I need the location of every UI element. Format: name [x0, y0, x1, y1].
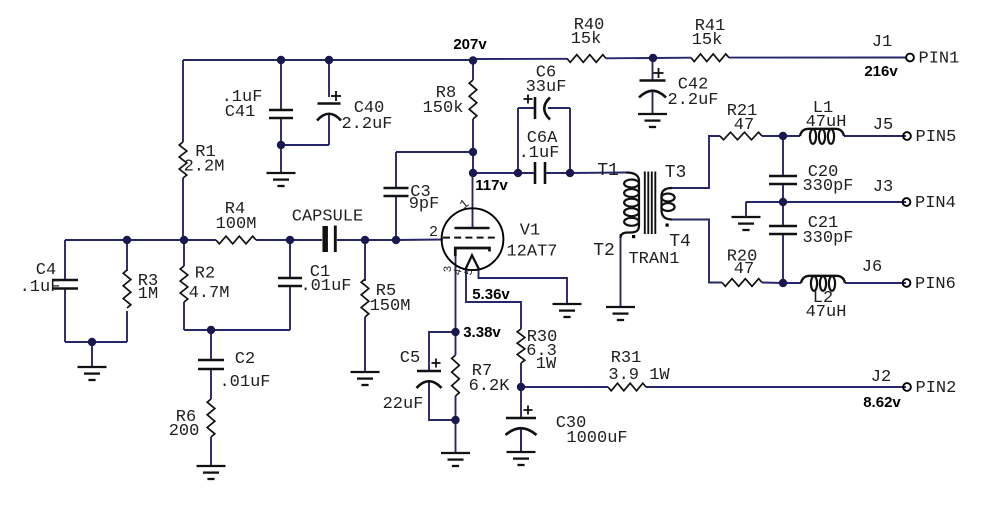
wire T2 lead — [620, 234, 622, 306]
ground under C4 loop — [78, 342, 107, 380]
capacitor C21 — [769, 214, 854, 248]
tube V1 pin 3 label — [443, 266, 455, 273]
label 12AT7 — [506, 243, 557, 262]
wire C2 branch — [210, 330, 212, 399]
wire R41 leads — [653, 57, 906, 60]
connector J3 PIN4 — [873, 178, 956, 213]
svg-text:J2: J2 — [871, 368, 891, 387]
tube V1 cathode — [455, 248, 489, 256]
transformer TRAN1 phase dot secondary — [666, 224, 669, 227]
resistor R30 — [517, 328, 557, 374]
wire L1 leads — [783, 135, 906, 137]
node 3.38v — [463, 324, 501, 341]
wire C40 top stub — [328, 60, 330, 97]
resistor R5 — [361, 279, 410, 317]
ground under R6 — [197, 437, 226, 479]
svg-text:1W: 1W — [536, 355, 557, 374]
capacitor C6A — [519, 129, 560, 184]
resistor R2 — [180, 265, 229, 304]
connector J1 PIN1 — [864, 33, 959, 80]
ground under C30 — [507, 429, 536, 465]
resistor R41 — [691, 17, 729, 62]
svg-text:.01uF: .01uF — [300, 277, 351, 296]
svg-text:8.62v: 8.62v — [863, 394, 901, 411]
svg-text:J1: J1 — [872, 33, 892, 52]
svg-text:J3: J3 — [873, 178, 893, 197]
tube V1 pin 2 label — [429, 224, 438, 241]
svg-text:5.36v: 5.36v — [472, 286, 510, 303]
svg-text:330pF: 330pF — [802, 229, 853, 248]
svg-text:C41: C41 — [225, 103, 256, 122]
svg-text:47: 47 — [734, 260, 754, 279]
capacitor C4 — [20, 261, 78, 297]
tube V1 plate — [455, 227, 490, 229]
svg-text:T4: T4 — [669, 232, 691, 252]
wire PIN4 row — [746, 201, 906, 203]
wire C41 top stub — [280, 60, 282, 110]
svg-text:PIN5: PIN5 — [916, 128, 957, 147]
resistor R1 — [179, 142, 224, 178]
svg-text:R2: R2 — [195, 265, 215, 284]
resistor R8 — [423, 80, 477, 119]
svg-text:T1: T1 — [597, 161, 619, 181]
wire R2 branch — [183, 240, 185, 330]
wire R3 branch — [65, 240, 127, 342]
svg-text:3.38v: 3.38v — [463, 324, 501, 341]
ground heater return — [553, 303, 582, 317]
wire C5 loop — [429, 332, 456, 420]
wire C30 branch — [520, 387, 522, 451]
ground on PIN4 line — [732, 202, 761, 231]
wire PIN2 row — [521, 386, 906, 388]
ground under C42 — [638, 91, 667, 127]
svg-text:PIN2: PIN2 — [916, 379, 957, 398]
wire R20 to node — [762, 282, 783, 285]
resistor R3 — [123, 270, 158, 308]
wire R5 branch — [364, 240, 366, 371]
capacitor C41 — [222, 88, 293, 122]
wire C21 branch — [782, 202, 784, 283]
label TRAN1 — [628, 250, 679, 269]
resistor R4 — [216, 200, 257, 244]
wire C4 branch — [64, 240, 66, 342]
label T3 — [665, 163, 687, 183]
resistor R7 — [452, 355, 510, 396]
wire heater lead to ground — [479, 267, 568, 303]
connector J2 PIN2 — [863, 368, 956, 411]
svg-text:C5: C5 — [400, 349, 420, 368]
resistor R31 — [608, 349, 670, 391]
tube V1 pin 1 label — [457, 196, 473, 213]
svg-text:4.7M: 4.7M — [189, 284, 230, 303]
tube V1 pin 5 label — [463, 268, 476, 277]
wire plate lead — [472, 173, 474, 227]
svg-text:33uF: 33uF — [526, 78, 567, 97]
svg-text:47uH: 47uH — [806, 113, 847, 132]
svg-text:.01uF: .01uF — [219, 373, 270, 392]
tube V1 pin 4 label — [452, 267, 465, 277]
label T1 — [597, 161, 619, 181]
wire R40 leads — [473, 58, 653, 59]
label V1 — [520, 222, 540, 241]
svg-text:1M: 1M — [138, 285, 158, 304]
wire 117v row to C6A — [473, 172, 570, 174]
svg-text:207v: 207v — [453, 36, 487, 53]
wire C41-C40 bottom link — [281, 115, 329, 146]
svg-text:15k: 15k — [571, 30, 602, 49]
svg-text:15k: 15k — [692, 31, 723, 50]
svg-text:TRAN1: TRAN1 — [628, 250, 679, 269]
transformer TRAN1 primary winding — [621, 173, 640, 239]
wire C3 lower stub — [395, 196, 397, 240]
svg-text:T3: T3 — [665, 163, 687, 183]
wire cathode bias row — [184, 329, 290, 331]
svg-text:PIN4: PIN4 — [915, 194, 956, 213]
wire C3 upper link — [396, 152, 473, 188]
svg-text:22uF: 22uF — [383, 395, 424, 414]
svg-text:9pF: 9pF — [409, 195, 440, 214]
wire T4 to R20 corner — [672, 220, 722, 283]
ground under R7 — [441, 420, 470, 466]
svg-text:PIN6: PIN6 — [915, 275, 956, 294]
svg-text:330pF: 330pF — [802, 177, 853, 196]
svg-text:12AT7: 12AT7 — [506, 243, 557, 262]
op-amp V1 tube envelope — [442, 208, 504, 270]
svg-text:2: 2 — [429, 224, 438, 241]
capacitor C20 — [769, 163, 854, 196]
inductor L1 — [800, 99, 846, 144]
wire left rail (R1 branch vertical) — [182, 60, 184, 240]
tube V1 grid — [443, 237, 495, 239]
svg-text:2.2uF: 2.2uF — [341, 115, 392, 134]
wire 117v row to T1 — [570, 172, 626, 175]
node 207v — [453, 36, 487, 53]
capacitor C42 — [639, 68, 719, 110]
svg-text:.1uF: .1uF — [20, 278, 61, 297]
svg-text:PIN1: PIN1 — [919, 49, 960, 68]
wire R7 branch — [455, 332, 457, 420]
svg-text:47uH: 47uH — [806, 303, 847, 322]
wire C20 branch — [782, 136, 784, 202]
capacitor C30 — [506, 406, 628, 449]
capacitor C2 — [198, 350, 271, 392]
svg-text:117v: 117v — [475, 177, 508, 194]
wire cathode lead — [455, 255, 457, 332]
svg-text:CAPSULE: CAPSULE — [292, 207, 363, 226]
resistor R40 — [567, 16, 606, 62]
connector J5 PIN5 — [873, 116, 957, 147]
ground under C41/C40 — [267, 145, 296, 186]
svg-text:200: 200 — [169, 422, 200, 441]
inductor L2 — [801, 276, 846, 322]
capacitor CAPSULE — [292, 207, 363, 252]
wire main grid row — [65, 239, 443, 242]
wire top supply rail — [183, 59, 473, 61]
svg-text:1000uF: 1000uF — [566, 429, 627, 448]
capacitor C3 — [384, 183, 440, 214]
transformer TRAN1 core — [645, 172, 656, 235]
svg-text:3.9 1W: 3.9 1W — [608, 366, 670, 385]
wire R30 bottom to node — [520, 363, 522, 387]
capacitor C6 — [524, 64, 567, 120]
svg-text:T2: T2 — [593, 241, 615, 261]
wire C42 stub — [652, 58, 654, 81]
tube V1 heater — [466, 255, 479, 268]
resistor R21 — [720, 102, 762, 140]
connector J6 PIN6 — [862, 258, 956, 294]
resistor R20 — [722, 248, 762, 287]
svg-text:J6: J6 — [862, 258, 882, 277]
capacitor C5 — [383, 349, 442, 414]
svg-text:C2: C2 — [235, 350, 255, 369]
ground under R5 — [351, 371, 380, 385]
svg-text:150k: 150k — [423, 99, 464, 118]
svg-text:6.2K: 6.2K — [469, 377, 511, 396]
wire C1 branch — [289, 240, 291, 330]
wire heater lead to R30 — [466, 267, 521, 329]
capacitor C1 — [278, 263, 352, 296]
svg-text:J5: J5 — [873, 116, 893, 135]
node 117v — [475, 177, 508, 194]
svg-text:216v: 216v — [864, 63, 898, 80]
label T2 — [593, 241, 615, 261]
svg-text:100M: 100M — [216, 215, 257, 234]
transformer TRAN1 phase dot primary — [632, 235, 635, 238]
wire C6 loop — [518, 108, 570, 173]
wire R21 to node — [762, 135, 783, 137]
ground T2 — [606, 306, 635, 320]
capacitor C40 — [317, 91, 393, 134]
svg-text:.1uF: .1uF — [519, 144, 560, 163]
svg-text:2.2M: 2.2M — [184, 158, 225, 177]
svg-text:47: 47 — [734, 116, 754, 135]
transformer TRAN1 secondary winding — [661, 188, 674, 220]
wire L2 leads — [783, 282, 906, 284]
svg-text:2.2uF: 2.2uF — [667, 91, 718, 110]
resistor R6 — [169, 399, 215, 441]
wire T3 to R21 corner — [672, 136, 720, 188]
svg-text:150M: 150M — [370, 297, 411, 316]
svg-text:V1: V1 — [520, 222, 540, 241]
node 5.36v — [472, 286, 510, 303]
wire R8 branch — [472, 60, 474, 173]
label T4 — [669, 232, 691, 252]
